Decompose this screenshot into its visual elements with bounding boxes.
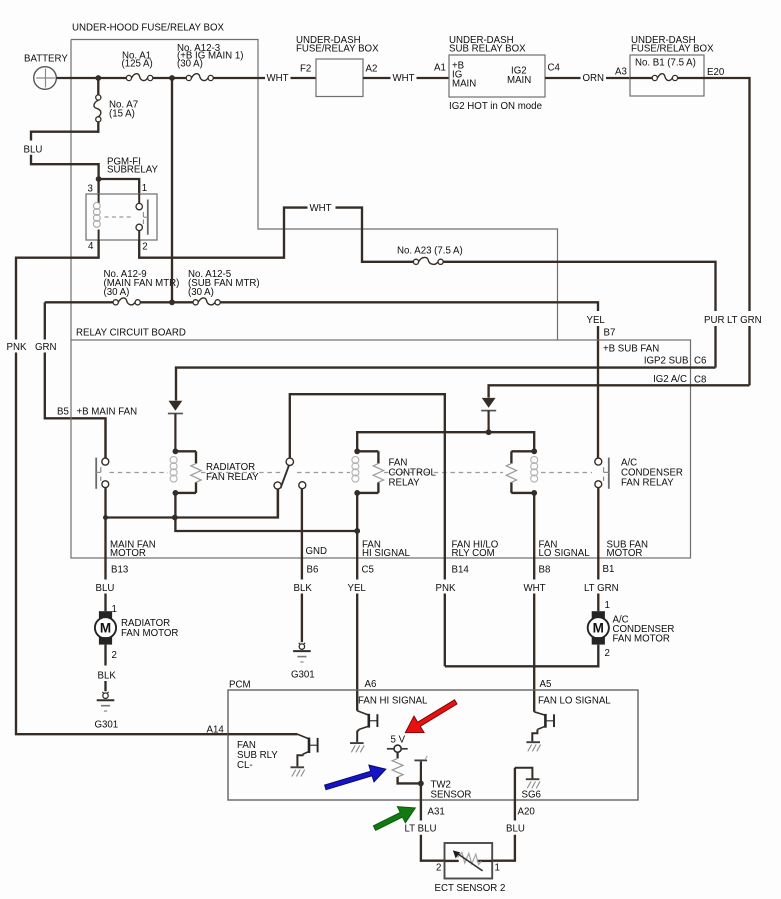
svg-text:4: 4 xyxy=(88,241,94,252)
svg-text:WHT: WHT xyxy=(267,73,289,84)
PCM box xyxy=(228,690,638,800)
label WHT 2 xyxy=(393,73,415,84)
5V supply node xyxy=(387,745,408,758)
pin 1 label ECT xyxy=(495,862,500,873)
svg-text:(30 A): (30 A) xyxy=(188,287,214,298)
wire coil bottom to fan ctl (line2) xyxy=(175,493,357,531)
A/C condenser fan motor label xyxy=(613,614,675,644)
A/C condenser fan relay label xyxy=(621,457,683,488)
ECT SENSOR 2 label xyxy=(435,883,506,894)
svg-text:No. B1 (7.5 A): No. B1 (7.5 A) xyxy=(635,57,696,68)
svg-text:GRN: GRN xyxy=(35,342,57,353)
node junction A12-3 xyxy=(169,75,175,81)
svg-text:RLY COM: RLY COM xyxy=(452,548,495,559)
wire SG6 to A20 xyxy=(514,768,516,821)
fuse No. A23 (7.5 A) xyxy=(397,246,463,265)
svg-text:B14: B14 xyxy=(452,564,470,575)
ECT sensor 2 leads xyxy=(445,860,493,862)
svg-text:LT GRN: LT GRN xyxy=(727,315,762,326)
pin A6 label xyxy=(365,679,377,690)
green annotation arrow xyxy=(373,807,415,831)
node junction A7 xyxy=(95,75,101,81)
TW2 sensor contact xyxy=(414,756,427,784)
svg-text:A5: A5 xyxy=(540,679,552,690)
svg-text:E20: E20 xyxy=(707,67,725,78)
actuation dashed line xyxy=(110,472,593,474)
wire B13 to motor xyxy=(104,594,106,612)
svg-text:FAN MOTOR: FAN MOTOR xyxy=(121,628,178,639)
fuse A7 No. A7 (15 A) xyxy=(94,78,138,133)
svg-text:A31: A31 xyxy=(428,806,445,817)
radiator fan motor M1 xyxy=(95,611,116,644)
net FAN HI SIGNAL label xyxy=(358,695,428,706)
svg-text:2: 2 xyxy=(142,242,147,253)
node line1 x coil xyxy=(172,515,178,521)
node line2 x C5 xyxy=(354,528,360,534)
relay circuit board title xyxy=(76,328,186,339)
svg-text:MOTOR: MOTOR xyxy=(110,548,146,559)
svg-text:BLK: BLK xyxy=(294,583,313,594)
svg-text:FAN RELAY: FAN RELAY xyxy=(206,472,259,483)
label PNK 2 xyxy=(436,583,456,594)
wire motor to BLK xyxy=(104,645,106,666)
wire WHT to A1 pin xyxy=(417,77,450,79)
SG6 label xyxy=(522,789,541,800)
svg-text:LO SIGNAL: LO SIGNAL xyxy=(539,548,591,559)
svg-text:G301: G301 xyxy=(291,669,315,680)
label LT GRN 2 xyxy=(584,583,619,594)
SG6 ground xyxy=(515,768,540,789)
wire pin2 to WHT jog xyxy=(139,208,307,258)
ground G301 left xyxy=(97,692,115,711)
pin A3 xyxy=(615,67,627,78)
svg-text:1: 1 xyxy=(495,862,500,873)
PCM title xyxy=(229,679,251,690)
label WHT 4 xyxy=(524,583,546,594)
svg-text:B6: B6 xyxy=(307,564,319,575)
net FAN SUB RLY CL- label xyxy=(237,740,278,771)
svg-text:M: M xyxy=(100,621,111,636)
label WHT xyxy=(267,73,289,84)
note IG2 HOT in ON mode xyxy=(449,101,542,112)
ECT sensor 2 box xyxy=(445,843,493,879)
svg-text:B7: B7 xyxy=(604,328,616,339)
svg-text:BLK: BLK xyxy=(98,670,117,681)
svg-text:YEL: YEL xyxy=(587,315,606,326)
svg-text:WHT: WHT xyxy=(524,583,546,594)
under-dash fuse/relay box 2 xyxy=(630,55,704,96)
label BLU 2 xyxy=(96,583,115,594)
svg-text:SUBRELAY: SUBRELAY xyxy=(107,165,159,176)
label GRN xyxy=(35,342,57,353)
wire A23 to PUR xyxy=(443,262,715,311)
pin 1 label xyxy=(142,183,147,194)
svg-text:C5: C5 xyxy=(362,564,374,575)
svg-text:F2: F2 xyxy=(300,64,311,75)
PGM-FI subrelay box xyxy=(86,194,157,240)
label PUR xyxy=(704,315,724,326)
wire fan ctl NO to GND xyxy=(301,489,303,580)
svg-text:FAN MOTOR: FAN MOTOR xyxy=(613,633,670,644)
label BLK 2 xyxy=(98,670,117,681)
svg-text:A14: A14 xyxy=(207,724,225,735)
wire main fan common (line1) xyxy=(103,489,278,520)
net +B MAIN FAN xyxy=(77,406,138,417)
under-dash sub relay box xyxy=(449,55,545,97)
svg-text:YEL: YEL xyxy=(348,583,367,594)
svg-text:PNK: PNK xyxy=(436,583,456,594)
svg-text:3: 3 xyxy=(88,184,93,195)
svg-text:BLU: BLU xyxy=(96,583,115,594)
svg-text:UNDER-HOOD FUSE/RELAY BOX: UNDER-HOOD FUSE/RELAY BOX xyxy=(72,23,225,34)
svg-text:IGP2 SUB: IGP2 SUB xyxy=(644,356,689,367)
pin F2 xyxy=(300,64,311,75)
svg-text:A3: A3 xyxy=(615,67,627,78)
svg-text:2: 2 xyxy=(112,650,117,661)
svg-text:SUB RELAY BOX: SUB RELAY BOX xyxy=(449,43,526,54)
label LT GRN xyxy=(727,315,762,326)
label PNK xyxy=(7,342,27,353)
transistor Q2 fan lo xyxy=(526,712,554,752)
wire C5 to A6 xyxy=(356,493,358,711)
wire AC motor pin2 to B14 xyxy=(445,645,599,667)
pin A2 xyxy=(366,64,378,75)
pin A31 label xyxy=(428,806,445,817)
pin label FAN LO SIGNAL B8 xyxy=(539,539,591,575)
transistor Q1 fan hi xyxy=(350,711,377,753)
wire PUR to IGP2 SUB xyxy=(714,326,716,368)
wire B14 to AC motor pin2 xyxy=(444,594,446,667)
diode D2 xyxy=(481,398,496,432)
under-hood fuse/relay box title xyxy=(72,23,225,34)
svg-text:ORN: ORN xyxy=(583,73,605,84)
wire fan lo signal B8 xyxy=(533,493,535,580)
svg-text:G301: G301 xyxy=(95,719,119,730)
wire LT GRN to IG2 A/C xyxy=(748,326,750,385)
svg-text:A6: A6 xyxy=(365,679,377,690)
svg-text:SENSOR: SENSOR xyxy=(431,789,472,800)
wire LT BLU to ECT xyxy=(421,835,445,861)
ground G301 mid xyxy=(293,643,311,662)
pin 4 label xyxy=(88,241,94,252)
svg-text:CL-: CL- xyxy=(237,760,253,771)
svg-text:RELAY: RELAY xyxy=(389,477,421,488)
svg-text:1: 1 xyxy=(112,604,117,615)
svg-text:5 V: 5 V xyxy=(391,734,406,745)
svg-text:FUSE/RELAY BOX: FUSE/RELAY BOX xyxy=(296,43,379,54)
svg-text:A20: A20 xyxy=(518,806,536,817)
thermistor RT1 xyxy=(453,850,483,871)
A/C condenser fan motor pin 2 xyxy=(605,648,610,659)
svg-text:MAIN: MAIN xyxy=(507,75,531,86)
svg-text:No. A23 (7.5 A): No. A23 (7.5 A) xyxy=(397,246,463,257)
svg-text:+B SUB FAN: +B SUB FAN xyxy=(603,343,659,354)
radiator fan motor label xyxy=(121,618,178,639)
pin label FAN HI SIGNAL C5 xyxy=(362,539,411,575)
wire B6 to G301 xyxy=(301,594,303,643)
A/C condenser fan relay coil xyxy=(506,448,538,495)
svg-text:C6: C6 xyxy=(694,356,706,367)
wire WHT to fuse A23 xyxy=(336,208,414,262)
svg-text:BLU: BLU xyxy=(506,824,525,835)
wire A12-3 to WHT xyxy=(213,77,265,79)
label BLK xyxy=(294,583,313,594)
label WHT 3 xyxy=(310,203,332,214)
wire A1 to A12-3 xyxy=(153,77,186,79)
svg-text:PCM: PCM xyxy=(229,679,251,690)
pin C8 label xyxy=(694,375,706,386)
fuse No. B1 (7.5 A) xyxy=(630,57,704,80)
PGM-FI subrelay title xyxy=(107,157,159,176)
net IG2 A/C label xyxy=(653,374,687,385)
pin A1 xyxy=(434,63,446,74)
radiator fan relay contact xyxy=(96,418,109,579)
subrelay actuation dashed link xyxy=(105,216,134,218)
svg-text:PNK: PNK xyxy=(7,342,27,353)
radiator fan motor pin 1 xyxy=(112,604,117,615)
pin E20 xyxy=(707,67,725,78)
pin A5 label xyxy=(540,679,552,690)
pin A14 label xyxy=(207,724,225,735)
net FAN LO SIGNAL label xyxy=(538,695,611,706)
wire WHT to F2 xyxy=(291,77,317,79)
label BLU xyxy=(24,144,43,155)
pin B5 label xyxy=(57,406,69,417)
svg-text:FAN RELAY: FAN RELAY xyxy=(621,477,674,488)
svg-text:WHT: WHT xyxy=(393,73,415,84)
svg-text:PUR: PUR xyxy=(704,315,724,326)
TW2 SENSOR label xyxy=(431,779,472,800)
svg-text:IG2 A/C: IG2 A/C xyxy=(653,374,687,385)
wire fan ctl com to B14 xyxy=(290,394,445,579)
wire fan ctl NC to line1 xyxy=(277,489,279,517)
svg-text:1: 1 xyxy=(142,183,147,194)
wire to subrelay pin 1 xyxy=(99,179,140,194)
net IG2 A/C wire xyxy=(489,385,750,397)
ground G301 mid label xyxy=(291,669,315,680)
red annotation arrow xyxy=(405,700,457,733)
wire B1 to AC motor xyxy=(597,594,599,612)
svg-text:(125 A): (125 A) xyxy=(122,59,153,70)
pin C6 label xyxy=(694,356,706,367)
wire PNK down to A14 xyxy=(16,353,228,735)
label BLU 3 xyxy=(506,824,525,835)
net IGP2 SUB wire xyxy=(176,368,716,401)
wire A7 to BLU xyxy=(31,132,99,141)
svg-text:BATTERY: BATTERY xyxy=(24,54,68,65)
svg-text:(30 A): (30 A) xyxy=(177,59,203,70)
label 5 V xyxy=(391,734,406,745)
node junction A12 fuses xyxy=(169,299,175,305)
svg-text:RELAY CIRCUIT BOARD: RELAY CIRCUIT BOARD xyxy=(76,328,186,339)
svg-text:C4: C4 xyxy=(548,63,561,74)
wire fan ctl coil top xyxy=(357,432,488,451)
svg-text:FUSE/RELAY BOX: FUSE/RELAY BOX xyxy=(631,43,714,54)
A/C condenser fan motor pin 1 xyxy=(605,600,610,611)
transistor Q3 fan sub rly xyxy=(291,734,318,776)
wire BLU to ECT xyxy=(492,835,515,861)
wire BLK to G301 xyxy=(104,681,106,691)
svg-text:(15 A): (15 A) xyxy=(109,108,135,119)
pin A20 label xyxy=(518,806,536,817)
radiator fan motor pin 2 xyxy=(112,650,117,661)
wire A2 out xyxy=(363,77,391,79)
wire A14 inside xyxy=(228,733,298,735)
svg-text:B8: B8 xyxy=(539,564,551,575)
svg-text:SG6: SG6 xyxy=(522,789,541,800)
ground G301 left label xyxy=(95,719,119,730)
battery B1 xyxy=(24,54,68,90)
wire A12-9 to A12-5 xyxy=(140,301,193,303)
wire BLU to subrelay xyxy=(31,155,99,194)
svg-text:A1: A1 xyxy=(434,63,446,74)
svg-text:WHT: WHT xyxy=(310,203,332,214)
net IGP2 SUB label xyxy=(644,356,689,367)
svg-text:LT BLU: LT BLU xyxy=(405,824,437,835)
wire TW2 to A31 xyxy=(420,783,422,820)
under-hood fuse/relay box outline xyxy=(71,40,558,341)
fuse No. A12-9 (MAIN FAN MTR) (30 A) xyxy=(104,269,180,305)
A/C condenser fan motor M2 xyxy=(588,611,609,644)
svg-text:B1: B1 xyxy=(603,564,615,575)
svg-text:1: 1 xyxy=(605,600,610,611)
pin 2 label xyxy=(142,242,147,253)
svg-text:(30 A): (30 A) xyxy=(104,287,130,298)
pin label MAIN FAN MOTOR B13 xyxy=(110,539,156,575)
wire E20 right and down xyxy=(704,78,750,311)
wire pin4 to PNK xyxy=(16,240,99,340)
resistor pull-up R1 xyxy=(392,758,403,777)
wire C4 to ORN xyxy=(545,77,581,79)
fuse No. A12-5 (SUB FAN MTR) (30 A) xyxy=(188,269,260,305)
svg-text:B13: B13 xyxy=(111,564,128,575)
wire A12-5 to YEL xyxy=(220,302,598,311)
A/C condenser fan relay contact xyxy=(595,458,609,580)
pin label FAN HI/LO RLY COM B14 xyxy=(452,539,499,575)
wire ORN to A3 xyxy=(606,77,630,79)
svg-text:LT GRN: LT GRN xyxy=(584,583,619,594)
svg-text:2: 2 xyxy=(605,648,610,659)
node D2 junction xyxy=(486,429,492,435)
svg-text:ECT SENSOR 2: ECT SENSOR 2 xyxy=(435,883,506,894)
radiator fan relay label xyxy=(206,462,259,483)
label YEL 2 xyxy=(348,583,367,594)
node subrelay feed junction xyxy=(96,176,102,182)
pin B7 label xyxy=(604,328,616,339)
svg-text:2: 2 xyxy=(436,862,441,873)
wire D2 to AC coil xyxy=(489,432,535,450)
svg-text:MAIN: MAIN xyxy=(452,79,476,90)
svg-text:BLU: BLU xyxy=(24,144,43,155)
wire B8 to A5 xyxy=(533,594,535,712)
pin 2 label ECT xyxy=(436,862,441,873)
fan control relay contact xyxy=(274,458,306,489)
net +B SUB FAN xyxy=(603,343,659,354)
wire A12-9 line left xyxy=(45,301,113,303)
label YEL xyxy=(587,315,606,326)
under-dash fuse/relay box 1 xyxy=(316,59,363,97)
relay circuit board box xyxy=(71,340,691,558)
wire GRN to B5 xyxy=(45,302,106,458)
pin label SUB FAN MOTOR B1 xyxy=(603,539,648,575)
PGM-FI subrelay coil xyxy=(93,194,100,240)
pin label GND B6 xyxy=(306,546,328,575)
fan control relay coil xyxy=(352,448,384,495)
under-dash sub relay box title xyxy=(449,35,526,54)
under-dash fuse/relay box 1 title xyxy=(296,35,379,54)
wire R1 to node xyxy=(398,777,421,783)
svg-text:+B MAIN FAN: +B MAIN FAN xyxy=(77,406,138,417)
label LT BLU xyxy=(405,824,437,835)
fan control relay label xyxy=(389,457,437,488)
svg-text:FAN HI SIGNAL: FAN HI SIGNAL xyxy=(358,695,428,706)
fuse No. A12-3 (+B IG MAIN 1) (30 A) xyxy=(177,43,243,81)
diode D1 xyxy=(168,401,183,449)
svg-text:B5: B5 xyxy=(57,406,69,417)
fuse No. A1 (125 A) xyxy=(122,51,153,81)
blue annotation arrow xyxy=(325,765,386,790)
svg-text:M: M xyxy=(593,621,604,636)
svg-text:HI SIGNAL: HI SIGNAL xyxy=(362,548,411,559)
svg-text:GND: GND xyxy=(306,546,328,557)
radiator fan relay coil xyxy=(170,448,201,495)
svg-text:MOTOR: MOTOR xyxy=(607,548,643,559)
PGM-FI subrelay contact xyxy=(136,194,148,240)
svg-text:IG2 HOT in ON mode: IG2 HOT in ON mode xyxy=(449,101,542,112)
svg-text:A2: A2 xyxy=(366,64,378,75)
node TW2 junction xyxy=(418,781,424,787)
svg-text:C8: C8 xyxy=(694,375,706,386)
pin C4 xyxy=(548,63,561,74)
wire YEL to B7 xyxy=(597,326,599,458)
under-dash fuse/relay box 2 title xyxy=(631,35,714,54)
wire battery to fuse A1 xyxy=(56,77,126,79)
pin 3 label xyxy=(88,184,93,195)
svg-text:FAN LO SIGNAL: FAN LO SIGNAL xyxy=(538,695,611,706)
label ORN xyxy=(583,73,605,84)
wire A12-3 vertical xyxy=(171,78,173,302)
sub relay box internal labels xyxy=(452,61,531,90)
